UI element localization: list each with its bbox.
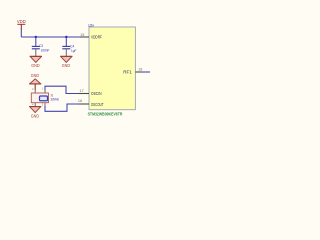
pin stub crystal pin 4 bbox=[34, 103, 36, 107]
svg-text:U3A: U3A bbox=[88, 23, 94, 28]
svg-text:18: 18 bbox=[138, 67, 142, 71]
sheet background bbox=[0, 0, 150, 141]
ground (crystal bottom) bbox=[30, 107, 41, 113]
crystal X1 body bbox=[31, 93, 48, 103]
wire RF1 out bbox=[143, 71, 151, 73]
pin 17 OSCIN bbox=[79, 93, 90, 95]
pin 16 OSCOUT bbox=[79, 103, 90, 105]
wire C3 to ground bbox=[35, 49, 37, 56]
svg-text:VDD: VDD bbox=[17, 19, 26, 24]
svg-text:VDDRF: VDDRF bbox=[91, 35, 102, 40]
op-amp U3A (MCU body STM32WB09) bbox=[89, 27, 135, 110]
wire C3 drop bbox=[35, 37, 37, 46]
capacitor C4 bbox=[62, 45, 70, 47]
pin stub crystal pin 3 bbox=[44, 103, 46, 107]
wire C4 to ground bbox=[65, 49, 67, 56]
pin stub crystal pin 1 bbox=[44, 90, 46, 93]
pin 15 VDDRF bbox=[80, 36, 89, 38]
junction C4 tap bbox=[65, 36, 67, 38]
pin stub crystal pin 2 bbox=[34, 90, 36, 93]
wire VDD rail bbox=[21, 36, 80, 38]
svg-text:17: 17 bbox=[79, 89, 83, 93]
junction C3 tap bbox=[35, 36, 37, 38]
svg-text:OSCOUT: OSCOUT bbox=[91, 102, 104, 107]
wire VDD vertical bbox=[20, 29, 22, 37]
wire crystal pin3 to OSCOUT bbox=[45, 104, 79, 111]
pin 18 RF1 bbox=[135, 71, 142, 73]
svg-text:32MHz: 32MHz bbox=[51, 96, 60, 101]
wire C4 drop bbox=[65, 37, 67, 46]
svg-text:GND: GND bbox=[62, 63, 70, 68]
svg-text:1µF: 1µF bbox=[71, 48, 77, 53]
svg-text:GND: GND bbox=[31, 63, 39, 68]
ground (C3) bbox=[30, 56, 42, 62]
svg-text:GND: GND bbox=[31, 114, 39, 119]
svg-text:RF1: RF1 bbox=[123, 70, 132, 75]
svg-text:GND: GND bbox=[31, 73, 39, 78]
svg-text:100nF: 100nF bbox=[41, 48, 50, 53]
ground (C4) bbox=[61, 56, 73, 62]
svg-text:STM32WB09KEV6TR: STM32WB09KEV6TR bbox=[88, 111, 123, 116]
svg-text:16: 16 bbox=[78, 99, 82, 103]
wire crystal pin1 to OSCIN bbox=[45, 86, 79, 93]
svg-text:OSCIN: OSCIN bbox=[91, 91, 102, 96]
svg-text:15: 15 bbox=[80, 33, 84, 37]
capacitor C3 bbox=[32, 45, 40, 47]
